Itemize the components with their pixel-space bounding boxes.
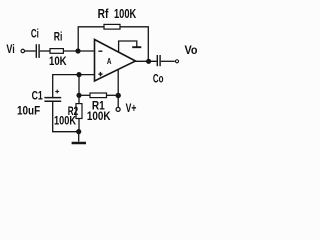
node output junction [146, 59, 151, 64]
wire C1 to ground node [53, 101, 79, 132]
wire R1 right to V+ node [107, 94, 119, 96]
svg-text:100K: 100K [54, 115, 77, 127]
wire R2 to ground node [78, 119, 80, 132]
capacitor Co [157, 55, 160, 66]
resistor R1 [90, 93, 107, 98]
svg-text:A: A [107, 57, 112, 66]
op-amp non-inverting pin plus marker [98, 72, 102, 76]
capacitor C1 [44, 98, 61, 102]
resistor R2 [76, 104, 82, 119]
svg-text:Ri: Ri [54, 31, 63, 43]
wire Ri to op-amp inverting input [63, 50, 94, 52]
node Vo output terminal [175, 60, 178, 63]
wire Rf to output node [120, 27, 148, 62]
svg-text:10uF: 10uF [17, 106, 40, 118]
ground (op-amp case ground bar) [132, 46, 141, 48]
wire op-amp V+ pin [117, 70, 119, 96]
C1 polarity plus mark [55, 90, 59, 94]
wire Co to Vo terminal [161, 60, 175, 62]
wire Rf left riser and top rail [78, 27, 104, 51]
ground [72, 142, 86, 145]
svg-text:100K: 100K [114, 7, 136, 21]
svg-text:Ci: Ci [31, 28, 39, 40]
node non-inverting rail junction [76, 72, 81, 77]
svg-text:V+: V+ [126, 103, 137, 115]
wire ground stub [78, 132, 80, 142]
svg-text:Vo: Vo [185, 45, 198, 57]
node R1/R2 junction [76, 93, 81, 98]
svg-text:Rf: Rf [98, 7, 109, 21]
node V+ junction [116, 93, 121, 98]
capacitor Ci [36, 44, 39, 58]
node Vi input terminal [21, 49, 25, 53]
node A junction (Ri/Rf/inverting input) [75, 48, 80, 53]
node ground junction [76, 129, 81, 134]
svg-text:C1: C1 [32, 91, 44, 103]
node V+ terminal [116, 107, 120, 111]
wire Vi terminal to Ci [25, 50, 36, 52]
svg-text:10K: 10K [49, 56, 67, 68]
wire non-inverting input rail [53, 75, 95, 98]
svg-text:100K: 100K [87, 111, 111, 123]
op-amp U1 triangle [95, 40, 136, 82]
wire Ci to Ri [40, 50, 50, 52]
wire op-amp output to Co [136, 60, 157, 62]
wire R1 left [79, 94, 90, 96]
resistor Ri [50, 49, 63, 54]
svg-text:Co: Co [153, 73, 164, 85]
resistor Rf [104, 24, 120, 29]
wire V+ node to V+ terminal [117, 96, 119, 108]
svg-text:Vi: Vi [6, 44, 14, 56]
wire node to R2 [78, 95, 80, 103]
wire op-amp top pin to case ground [119, 41, 137, 53]
wire junction down to R1/R2 node [78, 75, 80, 96]
op-amp inverting pin minus marker [98, 50, 102, 52]
